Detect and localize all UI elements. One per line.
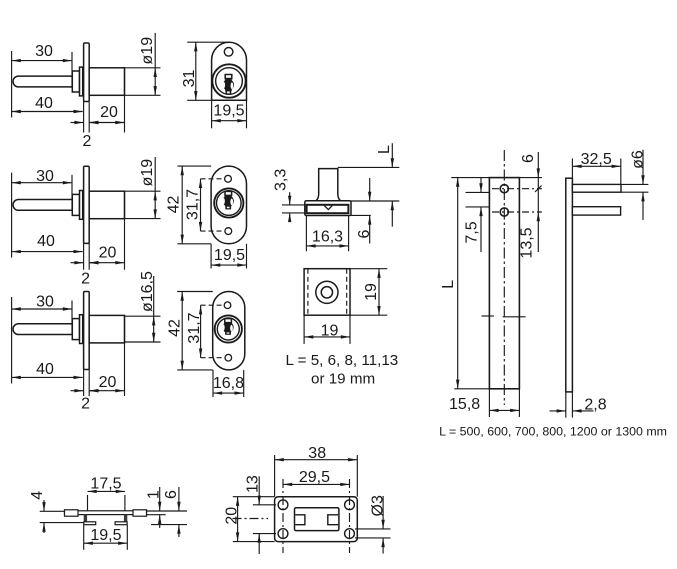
extension lines 20 bbox=[233, 497, 275, 542]
collar step bbox=[72, 319, 79, 340]
svg-text:2: 2 bbox=[81, 271, 90, 288]
faceplate front view lock 2 bbox=[211, 166, 246, 244]
dimension 16,8 bbox=[213, 375, 244, 395]
left wall bbox=[84, 515, 87, 523]
dimension 2 flange thickness bbox=[71, 261, 100, 288]
svg-text:2,8: 2,8 bbox=[584, 397, 606, 414]
extension lines body diameter bbox=[125, 316, 161, 342]
pin (plunger) bbox=[13, 324, 72, 335]
dashed lines to screw holes bbox=[201, 305, 225, 358]
flange plate bbox=[84, 166, 90, 243]
step washer bbox=[80, 67, 83, 96]
bar hole 2 bbox=[500, 208, 508, 216]
svg-text:16,3: 16,3 bbox=[312, 229, 343, 246]
key cylinder ring bbox=[217, 318, 239, 340]
key cylinder ring bbox=[216, 68, 243, 95]
svg-text:13: 13 bbox=[245, 475, 262, 493]
svg-text:19,5: 19,5 bbox=[90, 527, 121, 544]
svg-text:4: 4 bbox=[29, 491, 46, 500]
right wall bbox=[124, 515, 127, 523]
dimension 1 bbox=[146, 487, 163, 528]
extension lines 16,3 bbox=[306, 216, 348, 251]
svg-text:7,5: 7,5 bbox=[464, 221, 481, 243]
striker slot bbox=[307, 205, 349, 213]
svg-text:2: 2 bbox=[83, 133, 92, 150]
pin (plunger) bbox=[13, 200, 72, 211]
extension lines 19,5 bbox=[84, 525, 128, 550]
dimension 15,8 bbox=[449, 396, 519, 413]
dimension 19 vertical bbox=[363, 269, 381, 316]
step washer bbox=[80, 191, 83, 220]
svg-text:1: 1 bbox=[146, 490, 163, 499]
extension lines dia 3 bbox=[355, 529, 391, 538]
hole centerline left vertical bbox=[282, 479, 284, 553]
strike plate outline bbox=[275, 497, 358, 542]
svg-text:6: 6 bbox=[356, 229, 373, 238]
extension lines dia 6 bbox=[621, 184, 648, 192]
extension lines 17,5 bbox=[88, 495, 125, 511]
extension line bottom (31) bbox=[187, 99, 211, 101]
dimension dia 3 bbox=[369, 495, 386, 554]
corner hole TR bbox=[345, 500, 355, 510]
dimension 19,5 profile bbox=[84, 527, 128, 545]
flange plate bbox=[84, 292, 90, 370]
dimension 2 flange thickness bbox=[71, 389, 100, 413]
bar centerline bbox=[503, 150, 505, 405]
svg-text:31: 31 bbox=[181, 70, 198, 88]
extension lines 15,8 bbox=[489, 389, 519, 417]
key silhouette bbox=[222, 319, 233, 335]
cylinder body bbox=[89, 191, 124, 219]
bar hole 1 bbox=[500, 185, 508, 193]
plate horizontal centerline bbox=[233, 518, 269, 520]
svg-text:15,8: 15,8 bbox=[449, 396, 480, 413]
key cylinder outer bbox=[215, 315, 242, 342]
extension lines body diameter bbox=[125, 191, 161, 218]
extension lines width 16,8 bbox=[213, 370, 244, 397]
svg-text:40: 40 bbox=[37, 233, 55, 250]
key silhouette bbox=[223, 75, 234, 95]
right tab bbox=[328, 515, 338, 525]
svg-text:30: 30 bbox=[36, 293, 54, 310]
square plate bbox=[304, 269, 350, 316]
extension lines 3,3 bbox=[282, 205, 305, 213]
dimension 13 bbox=[245, 475, 262, 554]
svg-text:Ø3: Ø3 bbox=[369, 495, 386, 516]
dimension 40 bbox=[12, 361, 83, 379]
extension lines width 19,5 bbox=[212, 100, 247, 128]
dimension 38 bbox=[275, 445, 358, 462]
svg-text:20: 20 bbox=[100, 104, 118, 121]
dimension 32,5 bbox=[572, 151, 620, 168]
screw hole top bbox=[225, 175, 232, 182]
extension lines 19 bottom bbox=[304, 315, 350, 344]
svg-text:20: 20 bbox=[224, 507, 241, 525]
hole 2 centerline bbox=[492, 211, 542, 213]
pin (plunger) bbox=[13, 76, 72, 87]
side bar outline bbox=[566, 178, 573, 392]
dimension 19,5 bbox=[211, 247, 246, 267]
dimension 42 bbox=[165, 166, 184, 244]
svg-text:ø16,5: ø16,5 bbox=[139, 271, 156, 312]
extension line pin end bbox=[71, 175, 73, 211]
note L values bbox=[286, 352, 399, 388]
collar step bbox=[72, 71, 79, 92]
dimension 17,5 bbox=[88, 476, 125, 493]
svg-text:19: 19 bbox=[321, 323, 339, 340]
svg-text:31,7: 31,7 bbox=[186, 312, 203, 343]
svg-text:32,5: 32,5 bbox=[581, 151, 612, 168]
extension lines 42 bbox=[177, 166, 211, 244]
dimension 30 bbox=[12, 43, 72, 62]
dimension 40 bbox=[12, 95, 83, 113]
svg-text:30: 30 bbox=[36, 168, 54, 185]
screw hole top bbox=[224, 302, 231, 309]
screw hole bottom bbox=[225, 228, 232, 235]
svg-text:40: 40 bbox=[36, 361, 54, 378]
profile plate bbox=[65, 511, 147, 515]
svg-text:40: 40 bbox=[35, 95, 53, 112]
extension line body end bbox=[124, 68, 126, 133]
corner hole BR bbox=[345, 529, 355, 539]
dimension 6 and 13,5 shared line bbox=[518, 152, 541, 259]
svg-text:31,7: 31,7 bbox=[184, 189, 201, 220]
screw hole bottom bbox=[225, 354, 232, 361]
dimension 2 flange thickness bbox=[71, 121, 100, 150]
key silhouette bbox=[222, 191, 233, 209]
svg-text:30: 30 bbox=[35, 43, 53, 60]
dimension L bar bbox=[440, 178, 459, 389]
cylinder body bbox=[89, 315, 124, 343]
figure: lock type 2 side view bbox=[0, 0, 1, 1]
dimension diameter bbox=[139, 271, 156, 342]
figure: strike plate top view bbox=[0, 0, 1, 1]
dimension 19,5 bbox=[212, 103, 247, 123]
right foot bbox=[115, 522, 127, 525]
extension line plate bottom right bbox=[351, 214, 371, 216]
svg-text:6: 6 bbox=[163, 490, 180, 499]
key cylinder outer bbox=[214, 188, 243, 217]
step washer bbox=[80, 315, 83, 344]
corner hole TL bbox=[278, 500, 288, 510]
faceplate front view lock 1 bbox=[212, 42, 247, 100]
dimension diameter bbox=[139, 157, 157, 219]
figure: square striker plate top view bbox=[0, 0, 1, 1]
extension lines flange bottom bbox=[84, 370, 90, 397]
figure: lock type 3 side view bbox=[0, 0, 1, 1]
svg-text:19,5: 19,5 bbox=[214, 247, 245, 264]
svg-text:2: 2 bbox=[81, 396, 90, 413]
extension lines 32,5 bbox=[572, 159, 620, 185]
extension line pin tip bbox=[11, 297, 13, 383]
svg-text:19: 19 bbox=[363, 283, 380, 301]
dimension 19 horizontal bbox=[304, 323, 350, 340]
dashed lines to screw holes bbox=[201, 179, 226, 231]
extension line pin end bbox=[71, 301, 73, 335]
faceplate front view lock 3 bbox=[213, 292, 245, 370]
dimension 31,7 bbox=[186, 305, 203, 358]
svg-text:42: 42 bbox=[166, 319, 183, 337]
dimension diameter bbox=[139, 33, 157, 95]
svg-text:L: L bbox=[440, 280, 457, 289]
bar outline bbox=[489, 178, 519, 389]
extension lines 2,8 bbox=[566, 392, 573, 418]
fold lines dashed bbox=[308, 269, 347, 316]
extension line pin end bbox=[71, 52, 73, 88]
extension lines body diameter bbox=[125, 68, 161, 96]
svg-text:20: 20 bbox=[99, 374, 117, 391]
dimension 31 bbox=[181, 42, 198, 100]
extension line pin tip bbox=[11, 51, 13, 118]
svg-text:42: 42 bbox=[165, 196, 182, 214]
flange plate bbox=[84, 43, 90, 102]
svg-text:ø19: ø19 bbox=[139, 159, 156, 187]
svg-text:6: 6 bbox=[520, 154, 537, 163]
dimension 4 bbox=[29, 491, 46, 533]
extension lines 38 bbox=[275, 455, 358, 497]
dimension 40 bbox=[12, 233, 83, 253]
hole centerline right vertical bbox=[349, 479, 351, 553]
striker base plate bbox=[305, 201, 351, 216]
dimension 6 plate height bbox=[356, 178, 373, 244]
extension lines bar top bbox=[451, 177, 542, 179]
svg-text:16,8: 16,8 bbox=[213, 375, 244, 392]
extension lines 42 bbox=[177, 292, 213, 370]
center hole inner bbox=[321, 287, 332, 298]
extension lines 7,5 bbox=[466, 192, 490, 207]
figure: locking bar side view bbox=[0, 0, 1, 1]
figure: locking bar front view bbox=[0, 0, 1, 1]
svg-text:ø19: ø19 bbox=[139, 37, 156, 65]
svg-text:17,5: 17,5 bbox=[90, 476, 121, 493]
dimension 16,3 bbox=[306, 229, 348, 248]
extension lines 4 bbox=[40, 511, 84, 522]
extension lines 13 bbox=[253, 505, 276, 534]
svg-text:29,5: 29,5 bbox=[299, 469, 330, 486]
svg-text:L = 500, 600, 700, 800, 1200 o: L = 500, 600, 700, 800, 1200 or 1300 mm bbox=[439, 425, 667, 439]
dimension 3,3 bbox=[273, 169, 292, 222]
extension lines flange bottom bbox=[84, 102, 90, 133]
svg-text:L: L bbox=[376, 145, 393, 154]
figure: strike profile cross-section bbox=[0, 0, 1, 1]
left end bead bbox=[65, 510, 79, 516]
extension line body end bbox=[124, 315, 126, 396]
pin 1 bbox=[572, 184, 621, 192]
dimension 31,7 bbox=[184, 179, 202, 231]
dimension 30 bbox=[12, 293, 72, 310]
center hole outer bbox=[316, 281, 338, 303]
svg-text:19,5: 19,5 bbox=[213, 103, 244, 120]
dimension 2,8 bbox=[550, 397, 607, 414]
collar step bbox=[72, 194, 79, 215]
striker stem bbox=[316, 169, 341, 201]
extension lines 19 right bbox=[350, 269, 387, 316]
svg-text:L = 5, 6, 8, 11,13: L = 5, 6, 8, 11,13 bbox=[286, 352, 399, 369]
dimension 20 body length bbox=[89, 374, 124, 393]
dimension 7,5 bbox=[464, 178, 483, 252]
key cylinder ring bbox=[217, 191, 242, 216]
extension line stem top bbox=[338, 166, 400, 168]
dimension 6 profile bbox=[163, 487, 181, 537]
svg-text:38: 38 bbox=[308, 445, 326, 462]
figure: sliding-door pin striker bbox=[0, 0, 1, 1]
svg-text:or 19 mm: or 19 mm bbox=[311, 371, 375, 388]
svg-text:20: 20 bbox=[99, 245, 117, 262]
corner hole BL bbox=[278, 529, 288, 539]
svg-text:ø6: ø6 bbox=[630, 150, 647, 169]
dimension 20 body length bbox=[89, 104, 124, 124]
break marks bbox=[482, 315, 526, 318]
screw hole bbox=[224, 48, 233, 57]
key cylinder outer bbox=[212, 64, 245, 97]
center cutout bbox=[295, 508, 339, 531]
extension line body end bbox=[124, 191, 126, 270]
dimension 29,5 bbox=[283, 469, 350, 486]
right end bead bbox=[133, 510, 147, 516]
V notch bbox=[324, 206, 332, 210]
extension line bar bottom bbox=[454, 388, 489, 390]
dimension 20 plate bbox=[224, 497, 241, 542]
cylinder body bbox=[89, 68, 124, 96]
left tab bbox=[295, 515, 305, 525]
extension line pin tip bbox=[11, 173, 13, 258]
extension lines right 1 and 6 bbox=[147, 511, 188, 525]
dimension L bbox=[376, 143, 394, 226]
extension line top (31) bbox=[187, 41, 229, 43]
figure: lock type 1 side view bbox=[0, 0, 1, 1]
extension lines width 19,5 bbox=[211, 244, 246, 269]
left foot bbox=[84, 522, 96, 525]
extension lines flange bottom bbox=[84, 243, 90, 269]
dimension 20 body length bbox=[89, 245, 124, 265]
svg-text:3,3: 3,3 bbox=[273, 169, 290, 191]
dimension 42 bbox=[166, 292, 184, 370]
pin 2 bbox=[572, 207, 620, 215]
hole 1 centerline bbox=[492, 188, 542, 190]
dimension dia 6 bbox=[630, 150, 647, 220]
dimension 30 bbox=[12, 168, 72, 185]
extension line plate top right bbox=[351, 200, 399, 202]
note bar lengths bbox=[439, 425, 667, 439]
svg-text:13,5: 13,5 bbox=[518, 227, 535, 258]
